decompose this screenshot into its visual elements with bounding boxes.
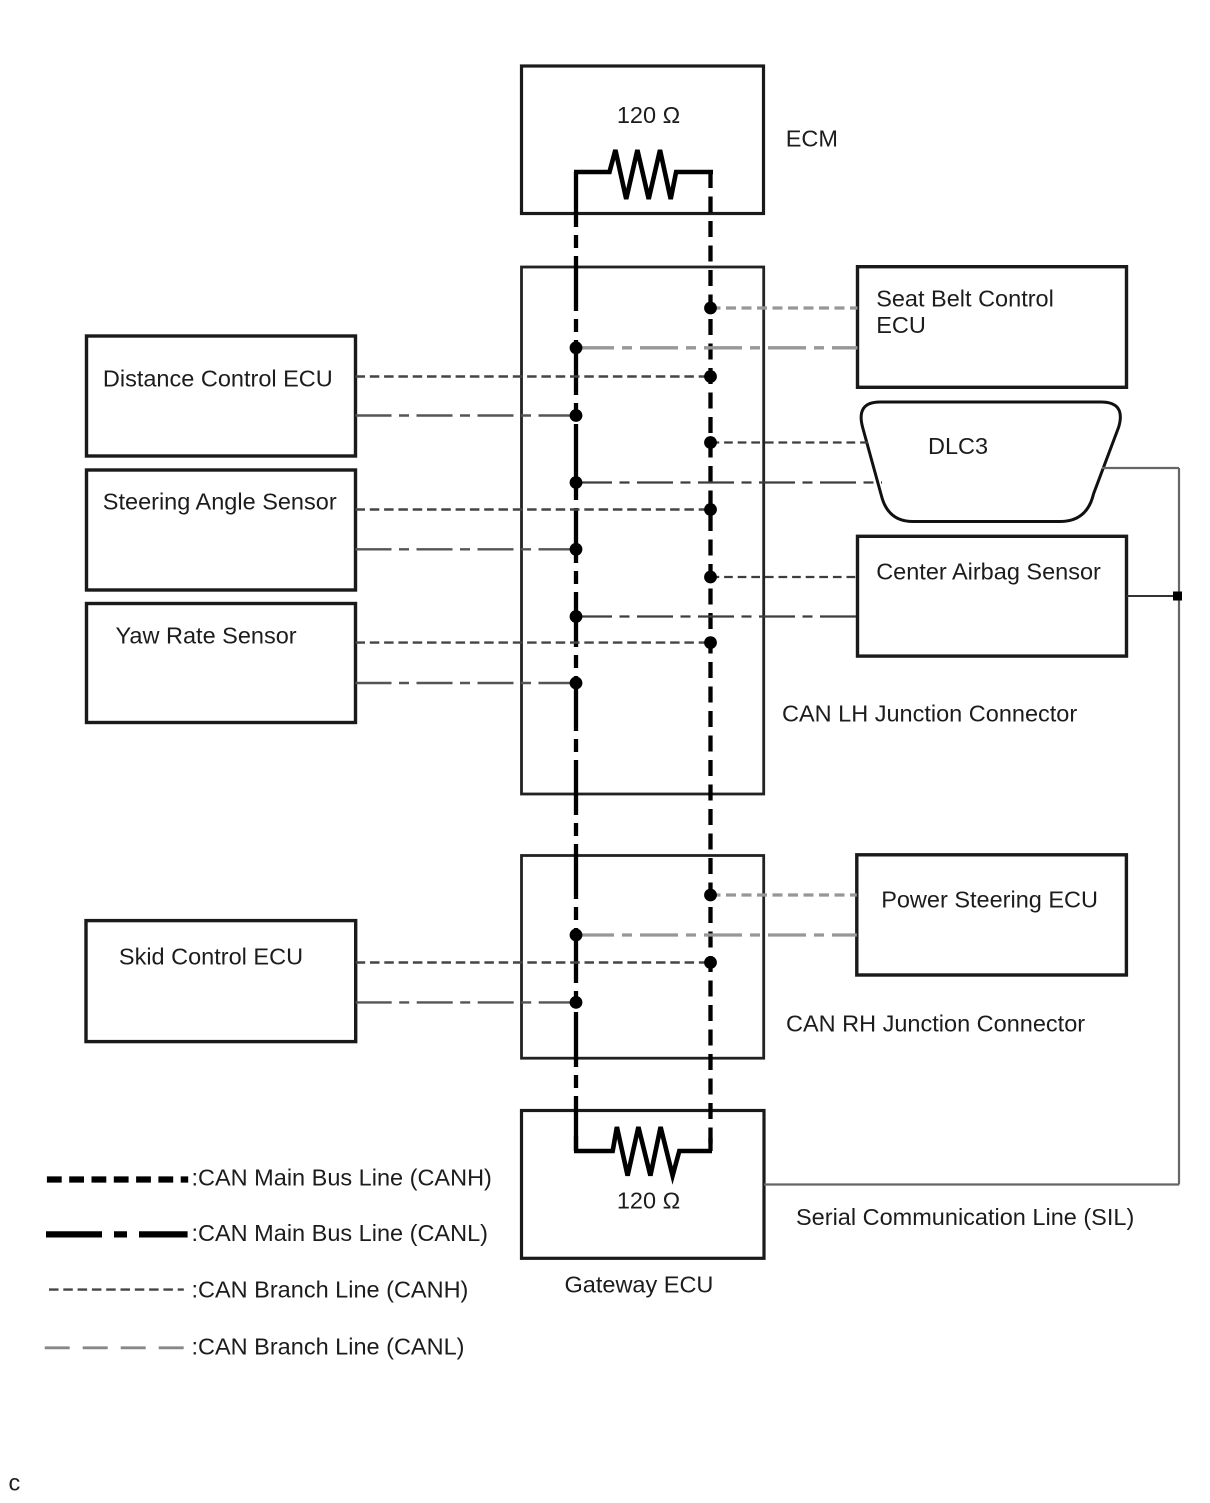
wire branch Power Steering CANH [711, 893, 857, 896]
svg-text:Skid Control ECU: Skid Control ECU [119, 944, 303, 970]
node dot Steering Angle CANH on CANH bus [704, 503, 717, 516]
Center Airbag Sensor box [858, 536, 1127, 656]
svg-text:Distance Control ECU: Distance Control ECU [103, 366, 333, 392]
wire branch Skid Control CANL [356, 1001, 576, 1003]
node dot DLC3 CANL on CANL bus [570, 476, 583, 489]
node dot Distance Control CANL on CANL bus [570, 409, 583, 422]
DLC3 connector outline [861, 402, 1120, 522]
node dot Steering Angle CANL on CANL bus [570, 543, 583, 556]
node dot Power Steering CANL on CANL bus [570, 929, 583, 942]
wire SIL vertical run [1178, 468, 1180, 1185]
node dot Seat Belt CANL on CANL bus [570, 341, 583, 354]
wire branch Distance Control CANL [356, 414, 577, 416]
svg-text::CAN Branch Line (CANL): :CAN Branch Line (CANL) [192, 1334, 465, 1360]
legend sample CAN Branch Line CANL [45, 1346, 186, 1349]
svg-text:Center Airbag Sensor: Center Airbag Sensor [876, 558, 1101, 584]
node dot Yaw Rate CANL on CANL bus [570, 677, 583, 690]
ECM box [522, 66, 764, 214]
svg-text:ECU: ECU [876, 312, 926, 338]
wire branch Steering Angle CANH [356, 508, 711, 510]
svg-text::CAN Main Bus Line (CANH): :CAN Main Bus Line (CANH) [192, 1165, 492, 1191]
wire branch Center Airbag CANL [576, 615, 858, 617]
wire CANH stub into Gateway resistor [708, 1138, 712, 1151]
node dot DLC3 CANH on CANH bus [704, 436, 717, 449]
svg-text:CAN RH Junction Connector: CAN RH Junction Connector [786, 1011, 1085, 1037]
svg-text:Serial Communication Line (SIL: Serial Communication Line (SIL) [796, 1204, 1134, 1230]
wire branch DLC3 CANL [576, 481, 882, 483]
CAN LH junction connector box [522, 267, 764, 794]
svg-text:Yaw Rate Sensor: Yaw Rate Sensor [116, 622, 297, 648]
svg-text:c: c [9, 1470, 21, 1496]
wire branch Seat Belt CANH [711, 306, 858, 309]
node dot Power Steering CANH on CANH bus [704, 889, 717, 902]
resistor 120ohm in ECM [574, 150, 713, 199]
svg-text:ECM: ECM [786, 126, 838, 152]
svg-text:120 Ω: 120 Ω [617, 1187, 680, 1213]
wire SIL stub from Center Airbag Sensor [1127, 595, 1180, 597]
Steering Angle Sensor box [87, 470, 356, 590]
svg-text:Seat Belt Control: Seat Belt Control [876, 286, 1054, 312]
node dot Yaw Rate CANH on CANH bus [704, 636, 717, 649]
wire branch Distance Control CANH [356, 375, 711, 377]
Skid Control ECU box [86, 921, 356, 1042]
svg-text:Steering Angle Sensor: Steering Angle Sensor [103, 489, 337, 515]
svg-text:CAN LH Junction Connector: CAN LH Junction Connector [782, 701, 1077, 727]
wire branch Yaw Rate CANH [356, 641, 711, 643]
legend sample CAN Branch Line CANH [49, 1288, 184, 1290]
Distance Control ECU box [87, 336, 356, 456]
node dot Skid Control CANH on CANH bus [704, 956, 717, 969]
node dot Skid Control CANL on CANL bus [570, 996, 583, 1009]
Seat Belt Control ECU box [858, 267, 1127, 388]
Yaw Rate Sensor box [87, 604, 356, 723]
svg-text:Gateway ECU: Gateway ECU [565, 1272, 714, 1298]
node junction square on SIL at Center Airbag stub [1173, 592, 1182, 601]
svg-text::CAN Branch Line (CANH): :CAN Branch Line (CANH) [192, 1276, 469, 1302]
legend sample CAN Main Bus Line CANH [47, 1176, 188, 1182]
svg-text:DLC3: DLC3 [928, 433, 988, 459]
wire SIL bottom horizontal to Gateway ECU [764, 1183, 1179, 1185]
wire branch Power Steering CANL [576, 933, 857, 936]
wire CANL stub into Gateway resistor [574, 1136, 578, 1151]
svg-text:120 Ω: 120 Ω [617, 102, 680, 128]
node dot Center Airbag CANL on CANL bus [570, 610, 583, 623]
svg-text:Power Steering ECU: Power Steering ECU [881, 887, 1098, 913]
wire branch Center Airbag CANH [711, 576, 858, 578]
wire branch Skid Control CANH [356, 961, 711, 963]
resistor 120ohm in Gateway [574, 1127, 712, 1176]
wire branch Seat Belt CANL [576, 346, 858, 349]
wire branch Steering Angle CANL [356, 548, 577, 550]
CAN RH junction connector box [522, 856, 764, 1059]
Gateway ECU box [522, 1111, 765, 1259]
wire CANL main bus (left vertical) [574, 172, 578, 1151]
wire branch DLC3 CANH [711, 441, 869, 443]
node dot Center Airbag CANH on CANH bus [704, 571, 717, 584]
legend sample CAN Main Bus Line CANL [46, 1231, 188, 1237]
node dot Distance Control CANH on CANH bus [704, 370, 717, 383]
Power Steering ECU box [857, 855, 1127, 975]
wire SIL from DLC3 to vertical run [1102, 467, 1179, 469]
node dot Seat Belt CANH on CANH bus [704, 302, 717, 315]
wire branch Yaw Rate CANL [356, 682, 577, 684]
wire CANH main bus (right vertical) [708, 172, 712, 1151]
svg-text::CAN Main Bus Line (CANL): :CAN Main Bus Line (CANL) [192, 1220, 488, 1246]
